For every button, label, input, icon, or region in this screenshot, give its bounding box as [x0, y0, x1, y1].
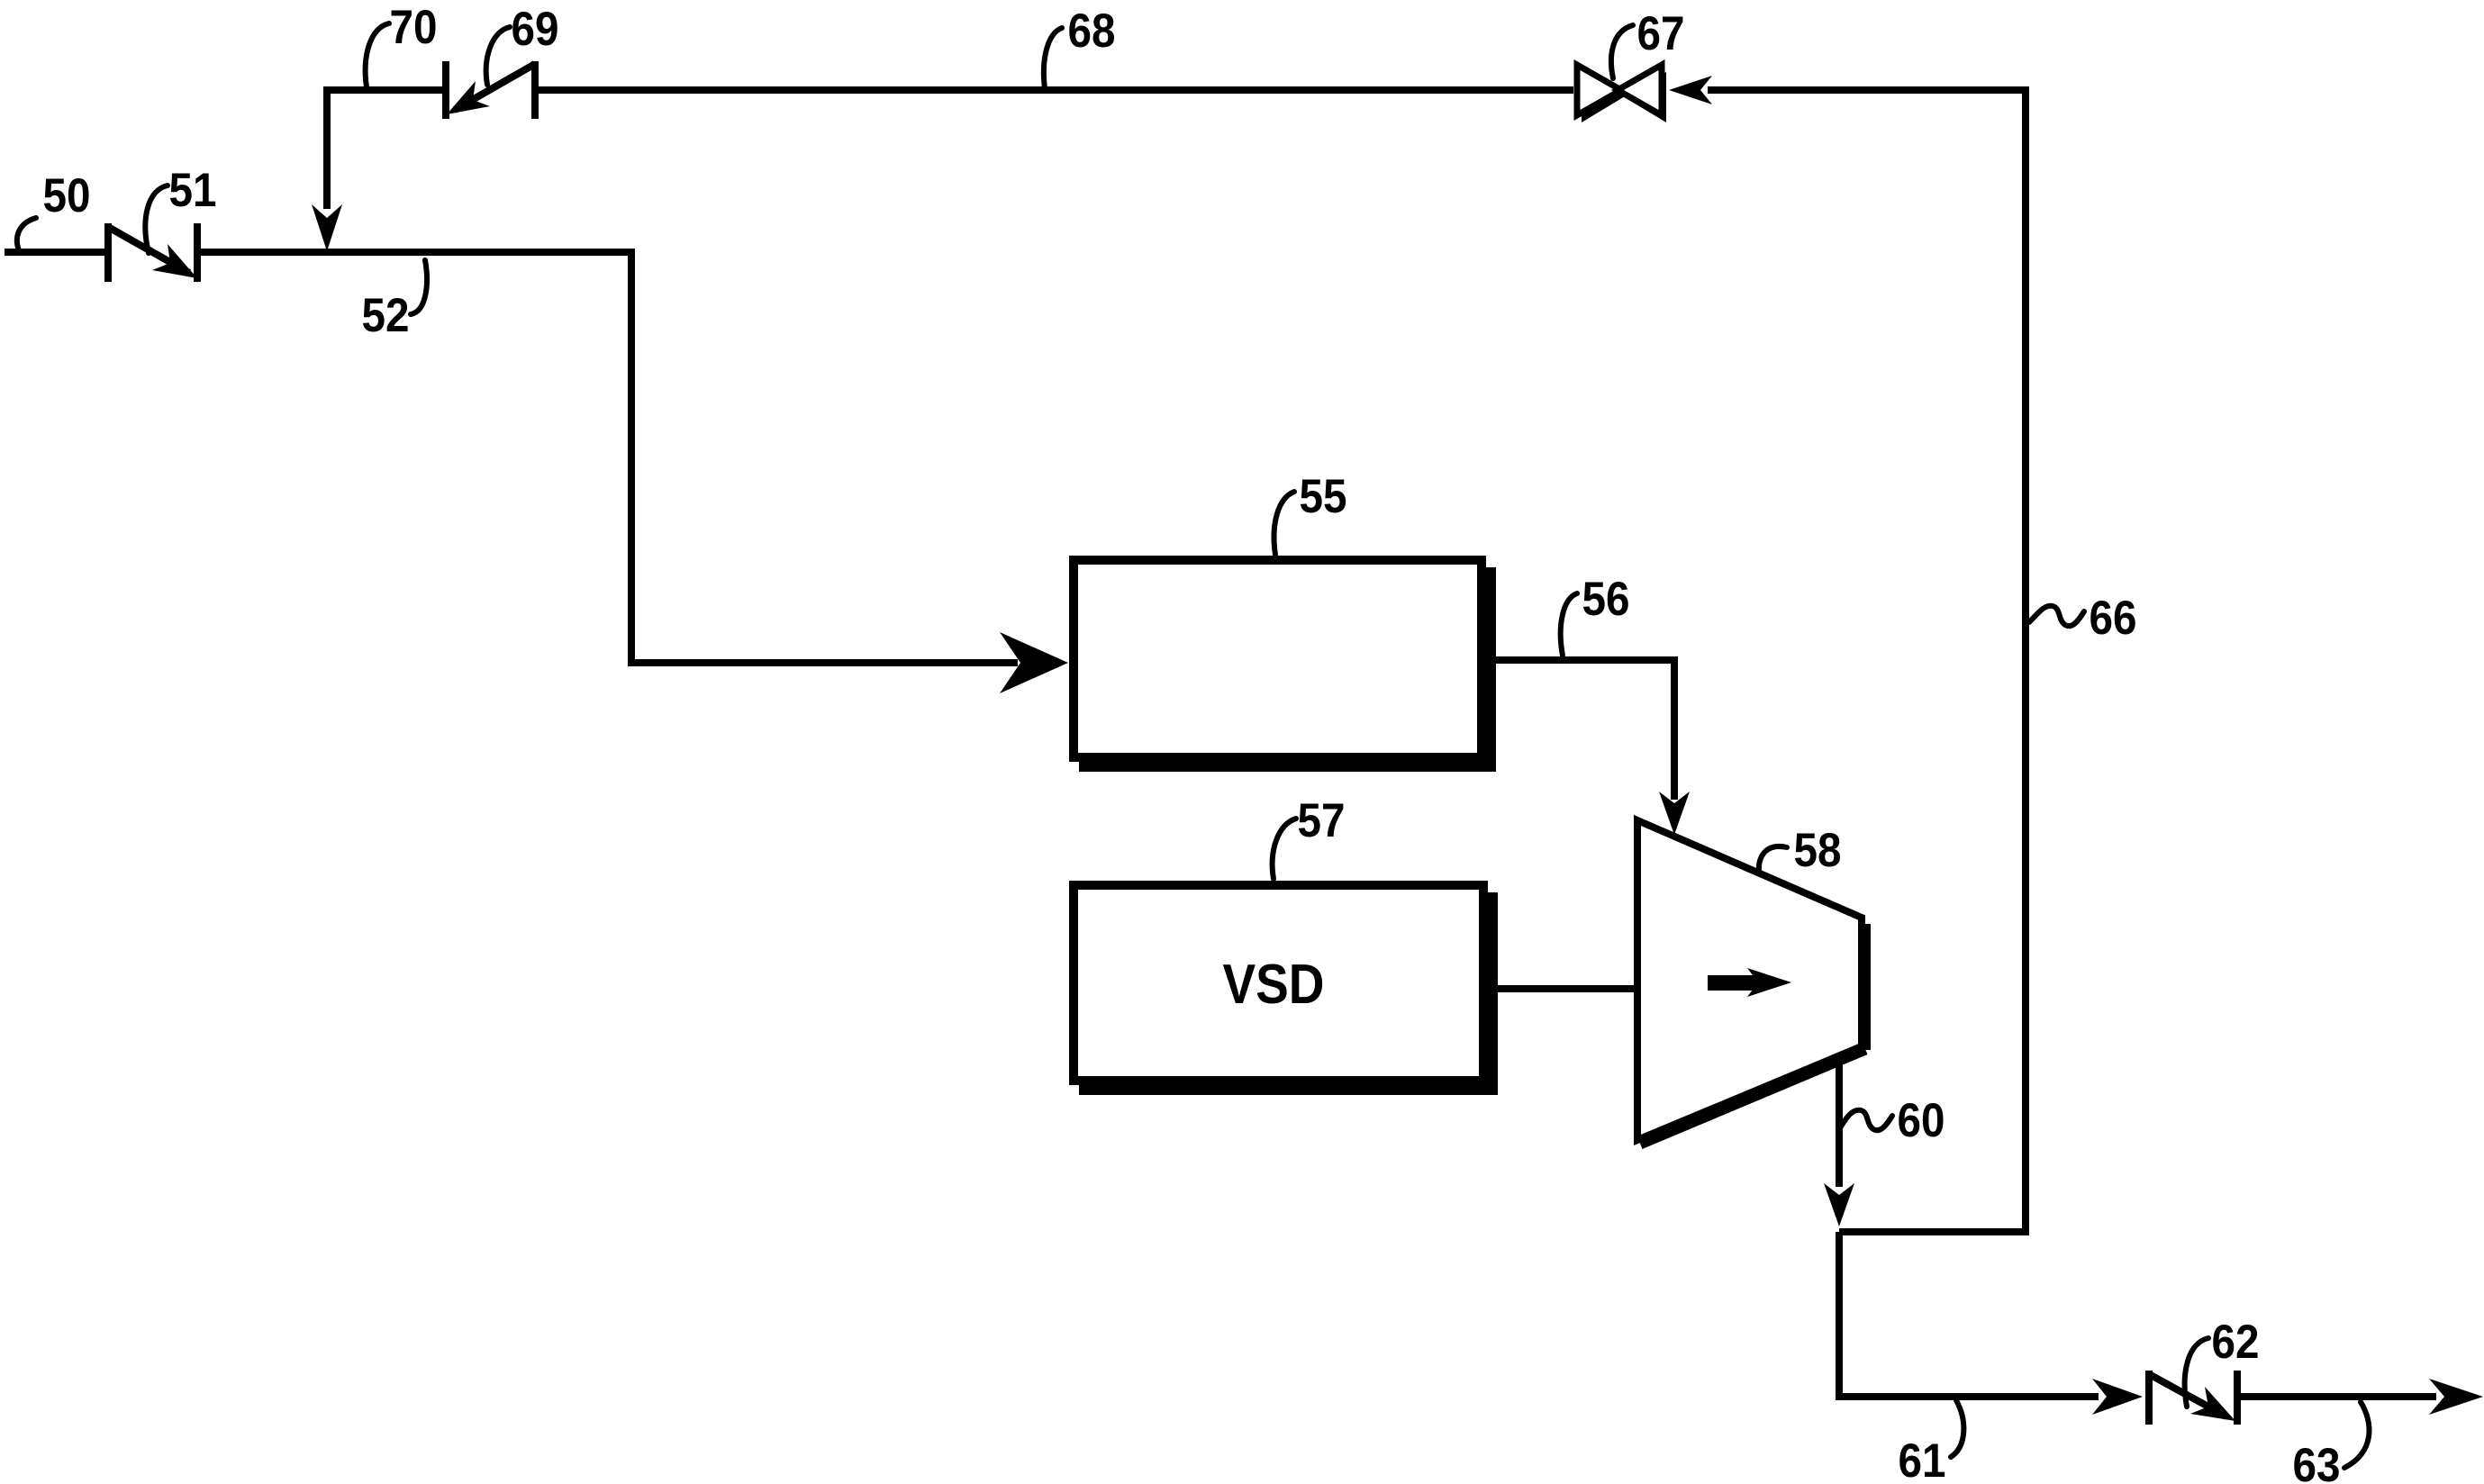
compressor 58 shadow	[1640, 924, 1871, 1144]
wire 52 (suction line to evaporator)	[201, 252, 1018, 663]
arrowhead into compressor inlet	[1659, 792, 1690, 835]
wire 68 (hot gas bypass line)	[539, 86, 1573, 94]
svg-text:55: 55	[1300, 470, 1347, 523]
leader 67	[1611, 25, 1633, 78]
valve 67 (bowtie valve)	[1577, 65, 1662, 115]
svg-text:70: 70	[390, 1, 438, 54]
arrowhead on wire 60	[1824, 1183, 1854, 1226]
arrowhead on wire 61	[2092, 1379, 2143, 1415]
leader 56	[1561, 593, 1577, 656]
valve 67 shadow	[1582, 72, 1666, 122]
check valve 62	[2145, 1371, 2241, 1425]
arrowhead wire 70 into wire 52	[312, 204, 342, 251]
svg-text:66: 66	[2090, 592, 2137, 645]
arrow inside compressor	[1708, 968, 1791, 997]
svg-text:69: 69	[512, 3, 559, 56]
wire 56 (from box 55 to compressor)	[1486, 660, 1674, 800]
arrowhead into valve 67	[1669, 76, 1712, 104]
box 57 (VSD) shadow	[1079, 892, 1498, 1095]
leader 50	[17, 218, 36, 250]
wire 50 (inlet line)	[5, 249, 104, 256]
svg-text:62: 62	[2212, 1316, 2260, 1369]
svg-text:52: 52	[362, 289, 410, 342]
leader 60 squiggle	[1841, 1110, 1892, 1130]
leader 62	[2185, 1338, 2208, 1407]
wire VSD to compressor	[1488, 985, 1637, 992]
wire 70 (bypass down leg)	[327, 90, 442, 209]
svg-text:61: 61	[1899, 1434, 1946, 1484]
wire 60 (compressor discharge)	[1836, 1059, 1843, 1187]
box 57 (VSD)	[1074, 885, 1483, 1081]
arrowhead into box 55	[1000, 632, 1068, 693]
leader 66 squiggle	[2029, 606, 2084, 626]
box 55 (evaporator)	[1074, 560, 1482, 757]
arrowhead outlet 63	[2429, 1379, 2483, 1415]
leader 70	[366, 23, 389, 87]
svg-text:57: 57	[1298, 794, 1346, 847]
compressor 58	[1637, 820, 1862, 1140]
svg-text:51: 51	[169, 164, 217, 217]
check valve 51	[104, 223, 201, 282]
leader 68	[1044, 28, 1062, 88]
leader 61	[1951, 1400, 1963, 1457]
svg-text:56: 56	[1582, 573, 1630, 626]
svg-text:60: 60	[1898, 1094, 1945, 1147]
svg-text:63: 63	[2293, 1439, 2341, 1484]
svg-text:67: 67	[1637, 7, 1685, 60]
leader 63	[2344, 1402, 2370, 1468]
leader 52	[411, 260, 427, 314]
leader 69	[486, 27, 510, 85]
box 55 (evaporator) shadow	[1079, 567, 1496, 772]
leader 55	[1274, 492, 1294, 555]
leader 58	[1759, 846, 1787, 871]
wire 61 (discharge down leg and outlet)	[1836, 1232, 2099, 1397]
svg-text:50: 50	[43, 169, 91, 222]
svg-text:68: 68	[1068, 5, 1116, 58]
check valve 69	[442, 61, 539, 119]
wire junction bar, wire 66 riser and top return to valve 67	[1708, 90, 2026, 1232]
wire 63 (outlet)	[2241, 1393, 2436, 1400]
leader 51	[145, 185, 168, 253]
leader 57	[1273, 819, 1296, 879]
svg-text:VSD: VSD	[1223, 954, 1325, 1016]
svg-text:58: 58	[1794, 824, 1842, 877]
